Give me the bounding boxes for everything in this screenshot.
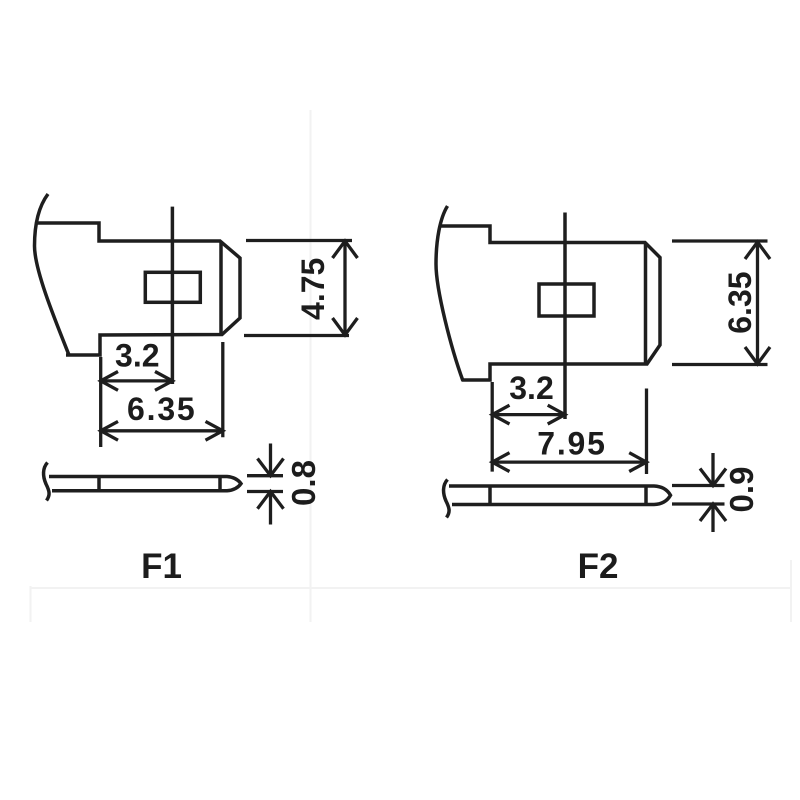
svg-text:F2: F2 — [578, 547, 619, 586]
svg-text:0.9: 0.9 — [723, 467, 760, 513]
svg-text:6.35: 6.35 — [127, 391, 196, 427]
svg-text:0.8: 0.8 — [285, 460, 322, 506]
svg-text:7.95: 7.95 — [537, 426, 606, 462]
svg-text:6.35: 6.35 — [722, 271, 758, 333]
svg-text:3.2: 3.2 — [115, 338, 159, 374]
svg-text:4.75: 4.75 — [295, 258, 331, 320]
svg-text:3.2: 3.2 — [509, 370, 553, 406]
svg-text:F1: F1 — [141, 547, 182, 586]
